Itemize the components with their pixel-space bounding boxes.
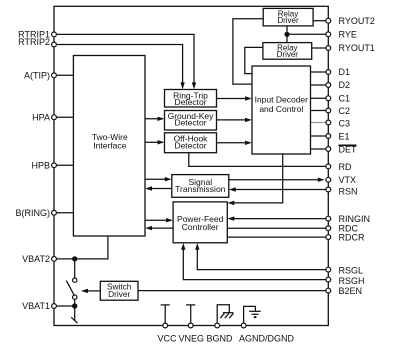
block Signal Transmission bbox=[172, 175, 229, 198]
wire Ring-Trip Detector to Input Decoder bbox=[217, 98, 251, 100]
pin RDC bbox=[326, 226, 331, 231]
block Input Decoder and Control bbox=[252, 66, 311, 154]
arrowhead Two-Wire to Signal Transmission bbox=[165, 177, 172, 181]
arrowhead Switch Driver to switch S1 bbox=[81, 289, 88, 293]
pin D2 bbox=[326, 83, 331, 88]
pin VTX bbox=[326, 177, 331, 182]
wire Two-Wire Interface to Signal Transmission bbox=[145, 178, 168, 180]
wire decoder control to Relay Driver U1 bbox=[233, 19, 263, 84]
svg-text:RINGIN: RINGIN bbox=[339, 214, 371, 224]
wire VBAT2 to Two-Wire Interface bbox=[54, 236, 108, 259]
wire C1 bbox=[311, 97, 329, 99]
arrowhead Two-Wire to Ground-Key bbox=[158, 117, 165, 121]
pin E1 bbox=[326, 134, 331, 139]
svg-text:D1: D1 bbox=[339, 67, 351, 77]
pin DET bbox=[326, 147, 331, 152]
wire Power-Feed Controller to Two-Wire Interface bbox=[149, 227, 174, 229]
arrowhead RTRIP1 into Ring-Trip Detector bbox=[192, 82, 196, 89]
svg-text:Input Decoder: Input Decoder bbox=[255, 94, 309, 104]
svg-text:Driver: Driver bbox=[277, 16, 299, 25]
pin VCC bbox=[163, 323, 168, 328]
svg-text:Controller: Controller bbox=[182, 222, 219, 232]
svg-text:RTRIP2: RTRIP2 bbox=[18, 37, 50, 47]
pin RD bbox=[326, 164, 331, 169]
pin C2 bbox=[326, 108, 331, 113]
pin AGND/DGND bbox=[241, 323, 246, 328]
arrowhead Off-Hook to decoder bbox=[245, 141, 252, 145]
arrowhead RSN into Signal Transmission bbox=[229, 187, 236, 191]
svg-text:RYE: RYE bbox=[339, 30, 357, 40]
wire Relay Driver U1 emitter to RYE node bbox=[286, 26, 288, 43]
svg-text:E1: E1 bbox=[339, 131, 350, 141]
svg-text:B2EN: B2EN bbox=[339, 286, 363, 296]
arrowhead Power-Feed to Two-Wire bbox=[145, 226, 152, 230]
svg-text:and Control: and Control bbox=[259, 104, 303, 114]
wire RSN to Signal Transmission bbox=[232, 189, 328, 191]
arrowhead RINGIN into Power-Feed bbox=[228, 216, 235, 220]
wire RSGH to Power-Feed Controller bbox=[183, 248, 328, 280]
switch S1 blade bbox=[66, 281, 74, 296]
arrowhead Two-Wire to Power-Feed bbox=[166, 218, 173, 222]
junction dot RYE node bbox=[284, 32, 289, 37]
VCC supply symbol bbox=[161, 305, 170, 324]
wire RDCR bbox=[227, 236, 328, 238]
wire RYE bbox=[287, 33, 328, 35]
wire Relay Driver U1 output to RYOUT2 bbox=[313, 20, 328, 22]
arrowhead RSGL into Power-Feed bottom bbox=[195, 243, 199, 250]
svg-text:RYOUT1: RYOUT1 bbox=[339, 43, 375, 53]
block Ground-Key Detector bbox=[165, 111, 217, 131]
pin HPA bbox=[52, 115, 57, 120]
wire Relay Driver U2 output to RYOUT1 bbox=[312, 47, 329, 49]
block Two-Wire Interface bbox=[73, 56, 145, 237]
svg-text:BGND: BGND bbox=[206, 334, 233, 344]
wire RSGL to Power-Feed Controller bbox=[197, 248, 328, 270]
svg-text:HPB: HPB bbox=[31, 160, 50, 170]
pin BGND bbox=[215, 323, 220, 328]
svg-text:Detector: Detector bbox=[174, 97, 206, 107]
wire Two-Wire Interface to Ground-Key Detector bbox=[145, 118, 163, 120]
block Relay Driver U1 bbox=[263, 8, 313, 26]
wire D1 bbox=[311, 71, 329, 73]
wire VBAT2 node to switch S1 bbox=[74, 259, 76, 278]
pin D1 bbox=[326, 70, 331, 75]
pin VNEG bbox=[188, 323, 193, 328]
svg-text:RSGH: RSGH bbox=[339, 276, 365, 286]
pin B2EN bbox=[326, 288, 331, 293]
junction dot VBAT1 node bbox=[72, 303, 77, 308]
wire Ground-Key Detector to Input Decoder bbox=[217, 119, 251, 121]
svg-text:HPA: HPA bbox=[32, 112, 50, 122]
wire HPB stub bbox=[54, 164, 73, 166]
pin RDCR bbox=[326, 235, 331, 240]
wire C2 bbox=[311, 110, 329, 112]
pin B(RING) bbox=[52, 210, 57, 215]
wire VBAT1 stub bbox=[54, 305, 75, 307]
pin RSGH bbox=[326, 277, 331, 282]
wire RINGIN to Power-Feed Controller bbox=[231, 218, 328, 220]
wire E1 bbox=[311, 135, 329, 137]
svg-text:RYOUT2: RYOUT2 bbox=[339, 16, 375, 26]
svg-text:Driver: Driver bbox=[277, 50, 299, 59]
wire decoder control to Relay Driver U2 bbox=[245, 47, 263, 73]
wire B(RING) stub bbox=[54, 212, 73, 214]
wire Switch Driver to B2EN bbox=[138, 290, 328, 292]
svg-text:RD: RD bbox=[339, 162, 352, 172]
arrowhead Ground-Key to decoder bbox=[245, 118, 252, 122]
switch S2 blade bbox=[71, 317, 77, 323]
wire C3 bbox=[311, 122, 329, 124]
switch S1 top contact bbox=[73, 278, 77, 282]
wire Input Decoder to Power-Feed Controller bbox=[231, 154, 283, 203]
wire RDC bbox=[227, 227, 328, 229]
block Switch Driver bbox=[100, 281, 138, 300]
pin RYOUT1 bbox=[326, 46, 331, 51]
pin RSN bbox=[326, 187, 331, 192]
pin RYE bbox=[326, 32, 331, 37]
svg-text:D2: D2 bbox=[339, 80, 351, 90]
svg-text:RSGL: RSGL bbox=[339, 265, 364, 275]
block Relay Driver U2 bbox=[263, 43, 312, 60]
overbar of DET bbox=[339, 144, 357, 146]
pin RSGL bbox=[326, 267, 331, 272]
svg-text:VTX: VTX bbox=[339, 175, 357, 185]
switch S1 bottom contact bbox=[73, 295, 77, 299]
svg-text:Detector: Detector bbox=[174, 118, 206, 128]
svg-text:VCC: VCC bbox=[157, 334, 177, 344]
wire Signal Transmission to VTX bbox=[229, 179, 322, 181]
wire Signal Transmission to Two-Wire Interface bbox=[149, 188, 172, 190]
svg-text:B(RING): B(RING) bbox=[16, 208, 51, 218]
svg-text:C2: C2 bbox=[339, 106, 351, 116]
block Power-Feed Controller bbox=[173, 202, 227, 243]
pin RINGIN bbox=[326, 216, 331, 221]
outer package boundary box bbox=[54, 6, 328, 325]
pin RTRIP2 bbox=[52, 42, 57, 47]
AGND/DGND earth-ground symbol bbox=[244, 306, 261, 323]
wire Off-Hook Detector to Input Decoder bbox=[217, 142, 251, 144]
wire Off-Hook Detector to RD bbox=[189, 153, 328, 167]
arrowhead RTRIP2 into Ring-Trip Detector bbox=[180, 82, 184, 89]
block Off-Hook Detector bbox=[165, 133, 217, 153]
pin RYOUT2 bbox=[326, 18, 331, 23]
svg-text:VBAT2: VBAT2 bbox=[22, 254, 50, 264]
wire VBAT1 node to switch S2 bbox=[74, 306, 76, 321]
svg-text:C1: C1 bbox=[339, 93, 351, 103]
arrowhead Two-Wire to Off-Hook bbox=[158, 140, 165, 144]
wire HPA stub bbox=[54, 116, 73, 118]
wire A(TIP) stub bbox=[54, 74, 73, 76]
svg-text:Detector: Detector bbox=[174, 141, 206, 151]
VNEG supply symbol bbox=[186, 305, 195, 324]
BGND chassis-ground symbol bbox=[217, 305, 233, 324]
svg-text:VBAT1: VBAT1 bbox=[22, 301, 50, 311]
svg-text:C3: C3 bbox=[339, 119, 351, 129]
arrowhead Signal Transmission to Two-Wire bbox=[145, 186, 152, 190]
svg-text:Transmission: Transmission bbox=[175, 184, 225, 194]
pin A(TIP) bbox=[52, 73, 57, 78]
pin C3 bbox=[326, 120, 331, 125]
arrowhead decoder to Power-Feed Controller bbox=[228, 201, 235, 205]
arrowhead Signal Transmission to VTX bbox=[318, 178, 325, 182]
wire RTRIP2 to Ring-Trip Detector bbox=[54, 45, 183, 85]
pin RTRIP1 bbox=[52, 32, 57, 37]
wire Two-Wire Interface to Power-Feed Controller bbox=[145, 219, 170, 221]
svg-text:RSN: RSN bbox=[339, 186, 358, 196]
pin VBAT1 bbox=[52, 304, 57, 309]
svg-text:RDCR: RDCR bbox=[339, 232, 365, 242]
wire D2 bbox=[311, 84, 329, 86]
pin VBAT2 bbox=[52, 257, 57, 262]
wire RTRIP1 to Ring-Trip Detector bbox=[54, 34, 194, 84]
svg-text:VNEG: VNEG bbox=[179, 334, 205, 344]
wire Switch Driver to switch S1 bbox=[88, 290, 101, 292]
pin HPB bbox=[52, 163, 57, 168]
svg-text:Driver: Driver bbox=[108, 289, 130, 299]
svg-text:AGND/DGND: AGND/DGND bbox=[239, 334, 295, 344]
svg-text:A(TIP): A(TIP) bbox=[24, 70, 50, 80]
wire switch S1 bottom to VBAT1 node bbox=[74, 299, 76, 306]
arrowhead Ring-Trip to decoder bbox=[245, 96, 252, 100]
wire Two-Wire Interface to Off-Hook Detector bbox=[145, 141, 163, 143]
block Ring-Trip Detector bbox=[165, 90, 217, 108]
svg-text:Interface: Interface bbox=[93, 140, 126, 150]
wire DET bbox=[311, 148, 329, 150]
arrowhead RSGH into Power-Feed bottom bbox=[181, 243, 185, 250]
junction dot VBAT2 node bbox=[72, 256, 77, 261]
pin C1 bbox=[326, 96, 331, 101]
